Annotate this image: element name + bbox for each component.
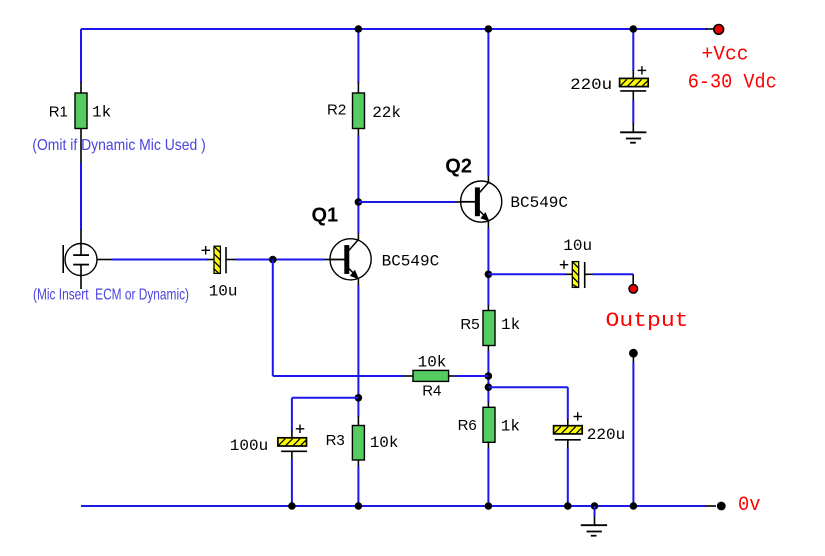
- resistor R2: [353, 29, 365, 202]
- svg-text:Q1: Q1: [312, 205, 339, 227]
- node output terminal +: [629, 285, 638, 294]
- svg-text:0v: 0v: [738, 494, 761, 517]
- svg-text:10k: 10k: [418, 353, 447, 371]
- svg-text:R4: R4: [422, 382, 441, 399]
- wire Q1 collector to node: [357, 202, 359, 234]
- svg-text:R5: R5: [460, 316, 479, 333]
- wire top rail to C5: [632, 29, 634, 78]
- node Q1 emitter junction: [355, 394, 363, 402]
- svg-text:220u: 220u: [587, 426, 625, 444]
- svg-text:+Vcc: +Vcc: [702, 44, 749, 67]
- svg-text:10u: 10u: [563, 237, 592, 255]
- wire R3 to bottom rail: [357, 466, 359, 506]
- wire C5 to ground: [632, 100, 634, 132]
- node bottom rail R3: [355, 502, 363, 510]
- wire C2 to output terminal: [593, 274, 634, 285]
- wire R4 to node: [456, 375, 488, 377]
- capacitor C3 100u: [278, 425, 307, 460]
- svg-text:22k: 22k: [372, 104, 401, 122]
- node output terminal -: [629, 349, 638, 363]
- wire left rail upper: [80, 29, 82, 83]
- node bottom rail ground: [591, 502, 599, 510]
- ground bottom: [581, 525, 607, 536]
- wire emitter to C2: [488, 273, 572, 275]
- wire feedback from input node: [273, 260, 405, 376]
- resistor R3: [352, 416, 364, 467]
- node R4 junction: [485, 372, 493, 380]
- transistor Q1: [330, 233, 371, 285]
- node 0v terminal: [717, 502, 726, 511]
- resistor R1: [75, 82, 87, 163]
- node R2 top: [355, 25, 363, 33]
- svg-text:(Mic Insert ECM or Dynamic): (Mic Insert ECM or Dynamic): [33, 287, 189, 304]
- wire R1 to mic: [80, 163, 82, 244]
- wire node to C3: [292, 398, 359, 438]
- wire output - to bottom rail: [632, 362, 634, 506]
- microphone MIC1: [63, 244, 111, 290]
- wire R5 to R6 node: [487, 351, 489, 403]
- svg-text:10k: 10k: [370, 434, 399, 452]
- ground top: [620, 132, 646, 142]
- svg-text:1k: 1k: [92, 104, 111, 122]
- svg-text:6-30 Vdc: 6-30 Vdc: [688, 72, 777, 95]
- wire Q2 collector to top rail: [487, 29, 489, 176]
- wire C4 to bottom rail: [567, 448, 569, 506]
- wire mic to C1: [111, 259, 208, 261]
- resistor R6: [483, 402, 495, 449]
- node bottom rail C4: [564, 502, 572, 510]
- node C5 top: [630, 25, 638, 33]
- svg-text:BC549C: BC549C: [382, 253, 440, 271]
- node bottom rail R6: [485, 502, 493, 510]
- svg-text:Output: Output: [606, 310, 689, 333]
- svg-text:R1: R1: [49, 104, 68, 121]
- node Q2 collector top: [485, 25, 493, 33]
- svg-text:1k: 1k: [501, 316, 520, 334]
- wire ground stub bottom: [594, 506, 596, 525]
- capacitor C1 10u input: [202, 246, 236, 273]
- capacitor C5 220u top: [620, 66, 649, 100]
- node +Vcc terminal: [714, 25, 724, 35]
- node bottom rail output: [630, 502, 638, 510]
- capacitor C2 10u output: [560, 260, 593, 288]
- wire C1 to Q1 base: [235, 259, 330, 261]
- wire C3 to bottom rail: [291, 459, 293, 506]
- wire R6 to bottom rail: [487, 448, 489, 506]
- resistor R4: [404, 370, 456, 381]
- wire node to Q2 base: [358, 201, 460, 203]
- wire Q1 emitter down: [357, 286, 359, 417]
- svg-text:10u: 10u: [209, 283, 238, 301]
- transistor Q2: [461, 176, 502, 228]
- svg-text:R3: R3: [326, 432, 345, 449]
- capacitor C4 220u bottom: [554, 412, 583, 448]
- svg-text:220u: 220u: [570, 76, 612, 94]
- svg-text:1k: 1k: [501, 418, 520, 436]
- resistor R5: [483, 305, 495, 352]
- svg-text:100u: 100u: [230, 437, 268, 455]
- node C4 junction: [485, 383, 493, 391]
- svg-text:(Omit if Dynamic Mic Used ): (Omit if Dynamic Mic Used ): [32, 137, 206, 154]
- wire bottom rail: [81, 505, 716, 507]
- node bottom rail C3: [288, 502, 296, 510]
- wire Q2 emitter down: [487, 228, 489, 306]
- node Q1 collector junction: [355, 198, 363, 206]
- wire node to C4: [488, 387, 567, 426]
- node Q2 emitter junction: [485, 271, 493, 279]
- svg-text:BC549C: BC549C: [510, 194, 568, 212]
- svg-text:Q2: Q2: [445, 156, 472, 178]
- node input junction: [269, 256, 277, 264]
- wire top rail: [81, 28, 714, 30]
- svg-text:R2: R2: [327, 102, 346, 119]
- svg-text:R6: R6: [458, 417, 477, 434]
